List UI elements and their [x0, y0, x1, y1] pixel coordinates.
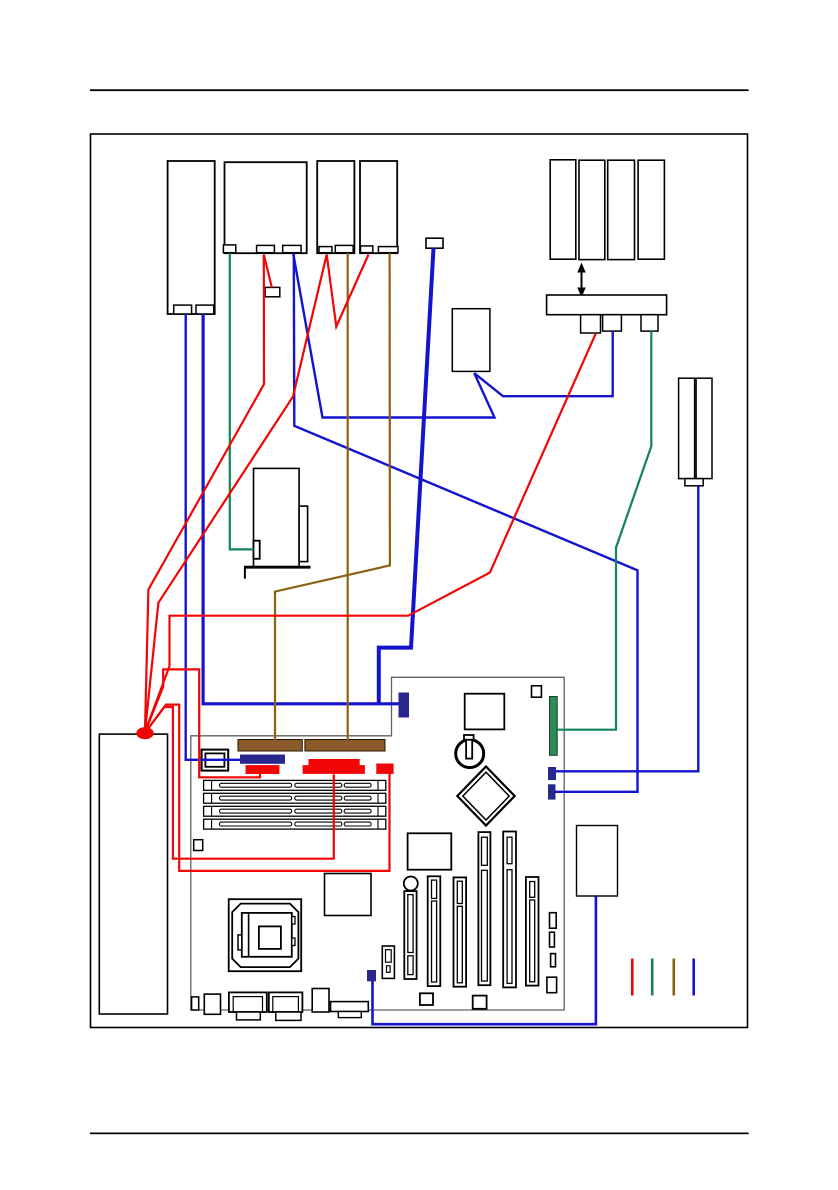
PCI slot B: [428, 876, 441, 986]
box1 connector tab 2: [196, 305, 214, 314]
box3 tab D (red): [319, 247, 332, 253]
legend tick red: [631, 959, 634, 996]
wire blue P5: top tab to AGP feed line: [379, 248, 434, 704]
outer figure border: [91, 134, 748, 1028]
wire green G2: bar tab3 to green edge connector: [557, 331, 651, 730]
front panel slat 3: [608, 160, 635, 259]
PCI slot D (tall): [478, 832, 490, 985]
front panel header square: [547, 977, 557, 993]
expansion card (side view): [244, 468, 310, 578]
chip square top: [465, 694, 505, 730]
drive bay box 2 (wide): [225, 162, 307, 253]
wire red R6: hub to ATX connector: [145, 707, 334, 859]
back panel horizontal bar: [331, 1002, 369, 1018]
legend tick blue: [692, 959, 695, 996]
small slot-like rect (speaker): [382, 946, 394, 978]
wire brown Br2: box4 tab G to FDD bar: [275, 253, 390, 740]
DIMM slot 2: [204, 793, 386, 803]
small isolated tab top right: [426, 238, 443, 248]
black double border box (LAN): [202, 750, 229, 771]
wire red spur to stub box: [264, 255, 272, 288]
green edge connector: [550, 697, 558, 756]
front panel header rect 1: [550, 913, 557, 929]
CPU socket: [229, 899, 302, 971]
wire red R2: hub to box3 tab D: [145, 255, 327, 732]
red connector bar 2: [376, 764, 393, 774]
drive bay box 1 (tall, top-left): [168, 161, 215, 314]
FDD brown connector bar: [238, 740, 302, 752]
bottom small square 2: [473, 996, 487, 1009]
double arrow between slats and bar: [577, 263, 585, 298]
navy wire tab bottom: [367, 970, 376, 981]
bar tab 3 (green): [641, 315, 658, 331]
red connector bar 1: [246, 765, 280, 774]
bar tab 1 (red): [581, 315, 601, 333]
front panel header rect 3: [551, 954, 556, 967]
motherboard outline: [191, 677, 564, 1010]
wire red R9: hub to front panel bar tab1: [145, 333, 596, 732]
navy power bar: [240, 755, 285, 764]
box2 tab B (red): [257, 245, 275, 252]
footer rule: [90, 1133, 749, 1135]
DIMM slot 3: [204, 806, 386, 816]
wire blue B1: box1 tab1 to navy power bar: [186, 314, 240, 760]
wire blue P4: board navy tab to right white box: [373, 897, 596, 1025]
box1 connector tab 1: [174, 305, 192, 314]
ATX red power connector: [303, 759, 365, 774]
wire red R5: hub to red bar 1: [145, 669, 260, 777]
wire green G1: box2 tab A to card tab: [230, 253, 254, 549]
wire blue B2: box1 tab2 to AGP navy bar: [203, 314, 399, 704]
box2 tab C (blue): [283, 245, 301, 252]
small circle (fan header): [404, 877, 418, 891]
bottom small square 1: [420, 993, 433, 1005]
AGP navy connector (top of board): [399, 693, 410, 718]
header rule: [90, 89, 749, 91]
back panel PS2 stack: [312, 989, 329, 1013]
PCI slot C: [454, 877, 467, 986]
front panel slat 4: [638, 160, 664, 259]
chipset diamond: [457, 767, 514, 826]
chip square left-mid: [325, 874, 372, 916]
legend tick brown: [672, 959, 675, 996]
front panel bar connector: [547, 295, 667, 315]
wire red R1: hub to box2 tab B: [145, 255, 264, 732]
back panel D-sub block 1: [229, 992, 267, 1020]
blue header tab 2 (right edge of board): [548, 784, 556, 799]
wire red R3: box3 tab D to box4 tab F: [327, 255, 369, 327]
wire blue P3: box2 tab C to board blue tab 2: [294, 254, 638, 792]
DIMM slot 4: [204, 819, 386, 829]
red hub dot: [136, 727, 153, 739]
mid white box (intrusion switch): [452, 309, 490, 372]
back panel tiny rect 1: [192, 997, 199, 1010]
small square top right of board: [532, 686, 542, 697]
front panel header rect 2: [550, 932, 555, 947]
chip square middle (BIOS): [408, 833, 452, 869]
box4 tab F (red): [361, 246, 373, 253]
front panel slat 1: [550, 160, 576, 259]
box3 tab E (brown): [335, 245, 353, 252]
PCI slot E (tall): [503, 832, 516, 988]
right tall double connector: [679, 378, 712, 486]
small stub box below box2: [265, 287, 280, 296]
slot A (AMR): [404, 891, 416, 979]
box4 tab G (brown): [378, 247, 398, 253]
front panel slat 2: [579, 160, 605, 259]
legend tick green: [651, 959, 654, 996]
right white box (drive): [577, 826, 618, 897]
small square below DIMMs: [194, 840, 203, 851]
blue header tab 1 (right edge of board): [548, 767, 556, 780]
drive bay box 4: [360, 161, 397, 253]
box2 tab A (green): [223, 245, 235, 253]
wire blue B6: right double connector to board blue tab 1: [556, 486, 699, 772]
power supply box (tall, bottom-left): [99, 734, 167, 1014]
PCI slot F: [526, 877, 539, 986]
back panel D-sub block 2: [269, 992, 303, 1020]
wire brown Br1: box3 tab E to IDE bar: [347, 253, 349, 740]
back panel rect 2: [204, 994, 220, 1014]
battery clip: [464, 735, 474, 759]
wire blue P1: bar tab2 to box2 tab C via mid box: [293, 254, 612, 418]
DIMM slot 1: [204, 780, 386, 790]
battery circle: [456, 740, 484, 768]
bar tab 2 (blue): [603, 315, 622, 331]
IDE brown connector bar: [305, 740, 385, 752]
wire red R8: hub to red bar 2: [145, 705, 390, 871]
drive bay box 3: [317, 161, 354, 253]
